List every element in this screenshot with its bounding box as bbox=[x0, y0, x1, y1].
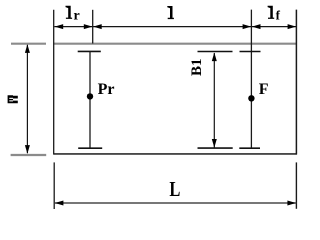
W dimension line bbox=[26, 45, 28, 153]
F support top flange bbox=[240, 51, 261, 53]
label W (rotated) bbox=[8, 95, 18, 103]
arrow left tip at F extension (lf segment) bbox=[252, 24, 261, 29]
svg-text:r: r bbox=[74, 9, 80, 24]
W dimension top extension line bbox=[11, 43, 46, 45]
plate bottom edge bbox=[54, 153, 297, 155]
L dimension right extension line bbox=[295, 162, 297, 208]
svg-text:f: f bbox=[276, 8, 281, 23]
top dimension extension line at Pr support bbox=[92, 10, 94, 44]
B1 top terminator line bbox=[198, 51, 233, 53]
F support bottom flange bbox=[239, 147, 260, 149]
L arrow left bbox=[55, 201, 64, 206]
F support line with top dimension extension bbox=[250, 10, 252, 149]
svg-text:F: F bbox=[259, 81, 269, 98]
Pr support stem bbox=[89, 51, 91, 148]
arrow right tip at F extension (l segment) bbox=[243, 24, 252, 29]
W arrow down bbox=[25, 145, 30, 154]
Pr load point dot bbox=[87, 93, 93, 99]
L dimension line bbox=[55, 202, 297, 204]
L dimension left extension line bbox=[53, 162, 55, 209]
Pr support bottom flange bbox=[78, 147, 102, 149]
plate left edge with top dimension extension bbox=[53, 10, 55, 155]
L arrow right bbox=[287, 201, 296, 206]
B1 arrow down bbox=[212, 139, 217, 148]
arrow right tip at plate right edge bbox=[288, 24, 297, 29]
W arrow up bbox=[25, 44, 30, 53]
svg-text:B1: B1 bbox=[189, 58, 205, 76]
Pr support top flange bbox=[78, 50, 101, 52]
label l_f bbox=[268, 6, 275, 19]
svg-text:Pr: Pr bbox=[98, 81, 115, 98]
arrow right tip at Pr extension bbox=[84, 24, 93, 29]
F load point dot bbox=[248, 95, 254, 101]
plate top edge bbox=[53, 43, 297, 45]
arrow left tip at plate left edge bbox=[55, 24, 64, 29]
plate right edge with top dimension extension bbox=[295, 10, 297, 155]
top dimension line bbox=[54, 26, 296, 28]
W dimension bottom extension line bbox=[11, 154, 47, 156]
svg-text:L: L bbox=[169, 177, 180, 201]
label l_r bbox=[66, 6, 73, 19]
arrow left tip at Pr extension (l segment) bbox=[93, 24, 102, 29]
B1 bottom terminator line bbox=[198, 147, 233, 149]
label l bbox=[167, 6, 174, 19]
B1 dimension line bbox=[213, 53, 215, 148]
B1 arrow up bbox=[212, 53, 217, 62]
